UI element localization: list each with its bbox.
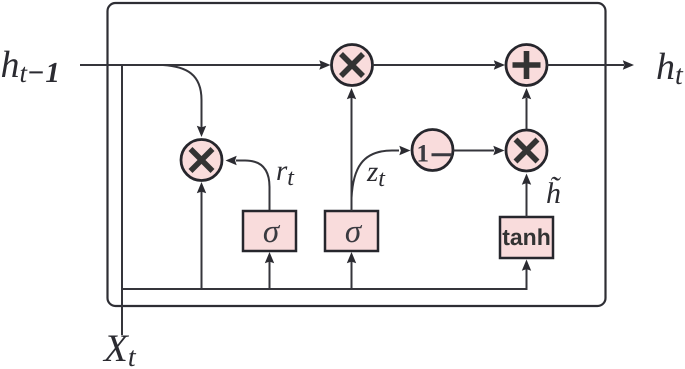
wire one-minus to candidate multiply — [453, 150, 494, 152]
multiply node reset gate product — [181, 140, 222, 181]
wire candidate multiply up to adder — [526, 98, 528, 130]
svg-text:tanh: tanh — [502, 224, 551, 250]
wire Xt vertical line — [121, 65, 123, 335]
sigma box update gate — [325, 211, 378, 251]
wire arrow into one-minus left — [399, 146, 410, 155]
wire zt line from sigma2 up to update multiply — [351, 97, 353, 211]
wire branch from h-line down to reset multiply — [163, 65, 202, 128]
multiply node update gate product — [332, 45, 373, 86]
wire arrow into sigma1 bottom — [265, 252, 274, 263]
tanh box — [500, 217, 553, 258]
wire arrow into update multiply — [319, 60, 330, 69]
svg-text:σ: σ — [345, 214, 363, 250]
svg-text:1: 1 — [417, 141, 430, 168]
wire arrow into sigma2 bottom — [347, 252, 356, 263]
wire bottom rail — [122, 268, 527, 289]
adder node plus circle — [506, 45, 547, 86]
wire zt branch to one-minus — [352, 151, 400, 199]
svg-text:h̃: h̃ — [546, 176, 561, 210]
wire update multiply to adder — [373, 64, 496, 66]
cell boundary box — [108, 3, 606, 306]
wire arrow into adder left — [494, 60, 505, 69]
sigma box reset gate — [243, 211, 296, 251]
wire rt curve from sigma1 to reset multiply — [236, 161, 270, 212]
svg-text:σ: σ — [263, 214, 281, 250]
wire bottom rail up into sigma1 — [269, 261, 271, 289]
wire arrow into tanh bottom — [522, 260, 531, 271]
wire bottom rail up into reset multiply — [201, 191, 203, 289]
wire bottom rail up into sigma2 — [351, 261, 353, 289]
wire arrow into reset multiply right — [226, 156, 237, 165]
wire arrow into adder bottom — [522, 88, 531, 99]
wire adder to output ht — [547, 64, 624, 66]
wire output arrow — [623, 60, 634, 69]
multiply node candidate product — [506, 130, 547, 171]
wire arrow into candidate multiply left — [493, 146, 504, 155]
wire arrow into reset multiply top — [197, 126, 206, 137]
wire arrow into update multiply bottom — [347, 88, 356, 99]
wire h(t-1) input line — [80, 64, 321, 66]
wire tanh up to candidate multiply — [526, 183, 528, 217]
wire arrow into reset multiply bottom — [197, 182, 206, 193]
one-minus node — [412, 130, 453, 171]
wire arrow into candidate multiply bottom — [522, 174, 531, 185]
